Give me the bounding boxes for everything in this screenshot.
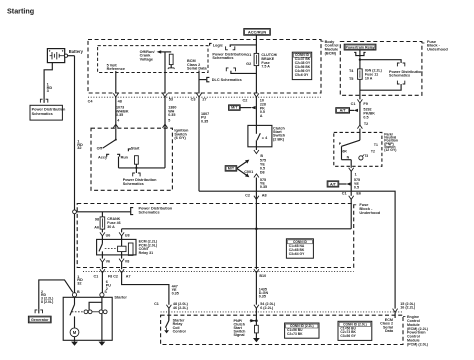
svg-text:T1: T1 <box>374 143 378 147</box>
svg-text:0.5: 0.5 <box>354 186 359 190</box>
svg-text:A/T: A/T <box>330 182 337 186</box>
svg-text:Powertrain Relay: Powertrain Relay <box>345 45 374 49</box>
ignition Run terminal <box>117 154 120 156</box>
wire relay to IGN fuse <box>359 57 361 69</box>
svg-text:0.5: 0.5 <box>363 115 368 119</box>
svg-text:V6: V6 <box>106 260 111 264</box>
svg-text:Accy: Accy <box>98 155 108 159</box>
svg-text:Starter: Starter <box>114 294 127 299</box>
relay terminal U6 <box>100 232 105 236</box>
svg-text:C2: C2 <box>243 99 248 103</box>
svg-text:0.35: 0.35 <box>116 113 123 117</box>
connector C001 arrows <box>254 150 259 154</box>
generator label box <box>28 316 51 323</box>
BCM CONN ID table <box>292 52 311 79</box>
wire battery to power distribution (1 RD 3) <box>44 63 52 100</box>
svg-text:Control: Control <box>173 330 186 334</box>
svg-text:C1: C1 <box>351 102 356 106</box>
resistor in BCM <box>169 54 173 64</box>
svg-text:M/T: M/T <box>228 166 235 170</box>
BCM connector dotted row <box>88 96 321 98</box>
svg-text:B: B <box>77 290 80 294</box>
svg-text:N: N <box>347 155 350 159</box>
clutch start switch <box>248 125 272 146</box>
body control module (BCM) dashed box <box>88 40 321 94</box>
wire 447 YE relay coil control <box>122 273 169 305</box>
starter grounds <box>71 342 78 346</box>
ECM CONN ID table 2.0L <box>338 321 372 340</box>
svg-text:10 A: 10 A <box>365 77 373 81</box>
svg-text:T3: T3 <box>364 154 368 158</box>
ignition Start terminal and resistor <box>128 149 131 151</box>
svg-text:A/T: A/T <box>340 108 347 112</box>
connector C2 A8 into fuse block <box>254 196 259 200</box>
M/T arrow label upper <box>229 105 241 110</box>
svg-text:Schematics: Schematics <box>139 211 160 215</box>
wire 228 PK to clutch start switch <box>255 97 257 125</box>
svg-text:M: M <box>73 330 77 335</box>
svg-text:C3: C3 <box>191 98 196 102</box>
svg-text:(2 BK): (2 BK) <box>273 137 285 141</box>
svg-text:T5: T5 <box>349 77 353 81</box>
svg-text:Logic: Logic <box>213 43 223 47</box>
svg-text:C2: C2 <box>245 193 250 197</box>
svg-text:Schematics: Schematics <box>389 74 410 78</box>
svg-text:G2: G2 <box>246 62 251 66</box>
wire 575 YE below C001 <box>255 178 257 200</box>
svg-text:0.35: 0.35 <box>259 295 266 299</box>
ignition switch to power distribution <box>135 168 137 173</box>
wire battery to starter B (1 RD 32) <box>68 55 75 57</box>
svg-text:C1: C1 <box>154 302 159 306</box>
svg-text:DLC Schematics: DLC Schematics <box>212 78 242 82</box>
wire BCM serial data <box>198 71 200 94</box>
wire 575 YE from PNP (A/T) <box>349 168 354 172</box>
powertrain relay contact symbol <box>359 50 361 57</box>
svg-text:Reference: Reference <box>107 67 125 71</box>
svg-text:F8 C2: F8 C2 <box>108 275 118 279</box>
wire 1435 D-GN clutch/PNP signal to ECM <box>254 269 259 273</box>
svg-text:Start: Start <box>131 147 140 151</box>
svg-text:U8: U8 <box>125 233 130 237</box>
svg-text:T2: T2 <box>371 150 375 154</box>
connector C1 F9 <box>357 99 362 103</box>
wire class 2 serial data to ECM <box>199 191 395 308</box>
svg-text:16 (2.2L): 16 (2.2L) <box>400 306 416 310</box>
svg-text:Underhood: Underhood <box>359 210 380 215</box>
svg-text:E6: E6 <box>356 191 361 195</box>
svg-text:0.35: 0.35 <box>172 292 179 296</box>
off-page bracket to power distribution <box>131 208 134 215</box>
svg-text:30 A: 30 A <box>107 225 115 229</box>
connector C1 F8-C2 A7 labels <box>100 269 105 273</box>
PNP/clutch start switch signal input <box>255 319 258 322</box>
ECM internal ground <box>253 338 260 342</box>
svg-text:8 (2.0L): 8 (2.0L) <box>41 300 53 304</box>
svg-text:B: B <box>260 154 263 158</box>
relay outputs V6 V8 <box>101 255 103 259</box>
connector arrows into ignition switch <box>113 124 118 128</box>
harness connector dotted row <box>83 270 354 272</box>
svg-text:Underhood: Underhood <box>427 47 448 52</box>
svg-text:Data: Data <box>385 329 394 333</box>
svg-text:G1: G1 <box>246 53 251 57</box>
ignition Accy terminal <box>107 154 110 156</box>
ignition switch internal wire to terminal 5 <box>119 167 166 169</box>
ignition switch dashed box <box>91 128 172 190</box>
ACC/RUN feed label box <box>244 29 270 36</box>
svg-text:6 (2.2L): 6 (2.2L) <box>260 306 274 310</box>
powertrain relay label box <box>344 44 376 50</box>
ECM harness dotted row <box>161 311 403 313</box>
svg-text:0.35: 0.35 <box>201 120 208 124</box>
svg-text:(BCM): (BCM) <box>325 50 337 55</box>
CRANK fuse 46 30A <box>101 212 103 217</box>
BCM inner dashed box <box>98 46 208 73</box>
svg-text:C1: C1 <box>93 275 98 279</box>
branch to power distribution (off-page) <box>360 60 401 63</box>
svg-text:C2=73 BK: C2=73 BK <box>287 332 303 336</box>
svg-text:Relay 31: Relay 31 <box>139 251 154 255</box>
engine control module dashed box <box>161 315 403 344</box>
svg-text:C3=56 GY: C3=56 GY <box>340 334 356 338</box>
power distribution schematics box <box>30 105 62 120</box>
starter S wire to windings and ground <box>89 297 102 310</box>
svg-text:48: 48 <box>118 99 122 103</box>
svg-text:(12 GY): (12 GY) <box>384 148 396 152</box>
ECM CONN ID table 2.2L <box>285 323 319 338</box>
starter solenoid windings <box>84 310 88 314</box>
svg-text:27: 27 <box>202 98 206 102</box>
starter solenoid plunger link <box>72 311 84 313</box>
svg-text:V8: V8 <box>125 260 130 264</box>
svg-text:= 4: = 4 <box>262 136 268 140</box>
wire to generator (2 RD) <box>39 280 73 310</box>
svg-text:46 (2.2L): 46 (2.2L) <box>173 306 189 310</box>
ignition switch blade Off <box>115 128 117 139</box>
svg-text:Schematics: Schematics <box>123 182 144 186</box>
svg-text:C5=6 GY: C5=6 GY <box>295 73 309 77</box>
svg-text:Run: Run <box>121 156 129 160</box>
svg-text:C001: C001 <box>244 170 253 174</box>
svg-text:Off: Off <box>97 147 103 151</box>
node on battery cable feeding CRANK fuse <box>73 210 77 214</box>
starter motor <box>74 327 76 329</box>
svg-text:Voltage: Voltage <box>140 57 153 61</box>
svg-text:ACC/RUN: ACC/RUN <box>248 30 267 35</box>
fuse block underhood dashed box (top right) <box>340 42 422 96</box>
A/T label with arrow lower <box>327 181 339 187</box>
svg-text:Schematics: Schematics <box>212 56 233 60</box>
svg-text:C1: C1 <box>342 191 347 195</box>
svg-text:(PCM) (2.0L): (PCM) (2.0L) <box>407 343 429 347</box>
svg-text:M/T: M/T <box>231 106 238 110</box>
off-page bracket generator <box>35 310 37 313</box>
DLC schematics tap <box>199 79 206 81</box>
svg-text:A6: A6 <box>94 226 99 230</box>
starter relay coil control driver <box>168 315 170 320</box>
svg-text:0.35: 0.35 <box>260 185 267 189</box>
svg-text:Serial Data: Serial Data <box>187 67 208 71</box>
off-page connector to power distribution <box>40 99 42 102</box>
starter solenoid contact <box>74 297 76 305</box>
svg-text:Signal: Signal <box>234 333 245 337</box>
svg-text:98: 98 <box>95 217 99 221</box>
svg-text:Generator: Generator <box>31 318 49 322</box>
starter B terminal <box>72 293 76 297</box>
PNP switch internals <box>342 140 360 146</box>
svg-text:A8: A8 <box>262 193 267 197</box>
svg-text:A7: A7 <box>126 275 131 279</box>
M/T arrow label lower <box>225 166 237 171</box>
relay terminal U8 fed by 575 bus <box>122 228 352 230</box>
svg-text:C3=64 GY: C3=64 GY <box>289 252 305 256</box>
wire 5 volt reference <box>115 71 117 94</box>
park/neutral position switch dashed box <box>334 132 382 166</box>
svg-text:Battery: Battery <box>69 49 84 54</box>
svg-text:F9: F9 <box>363 102 367 106</box>
fuse block center CONN ID table <box>286 239 313 258</box>
svg-text:A: A <box>260 114 263 118</box>
svg-text:Schematics: Schematics <box>32 112 53 116</box>
svg-text:53: 53 <box>169 98 173 102</box>
ECM/PCM CONT relay 31 <box>97 239 136 255</box>
svg-text:5: 5 <box>168 119 170 123</box>
svg-text:(6 GY): (6 GY) <box>174 135 186 140</box>
svg-text:T2: T2 <box>364 122 368 126</box>
starter box <box>63 297 112 340</box>
svg-text:7.5 A: 7.5 A <box>261 65 270 69</box>
svg-text:0.35: 0.35 <box>168 113 175 117</box>
battery B+ <box>47 49 64 63</box>
A/T label with arrow (5292) <box>336 108 350 113</box>
wire off/run/crank voltage output <box>164 52 166 94</box>
svg-text:D8: D8 <box>260 171 265 175</box>
fuse block underhood dashed box (center) <box>77 204 354 268</box>
connector T2 into PNP switch <box>357 125 362 129</box>
svg-text:Starting: Starting <box>7 6 34 15</box>
wire clutch/brake fuse output <box>255 66 257 94</box>
wire 6 PU to starter S <box>101 273 103 293</box>
svg-text:B10: B10 <box>259 274 266 278</box>
svg-text:1: 1 <box>355 173 357 177</box>
connector C1 E6 <box>349 196 354 200</box>
starter S terminal <box>100 293 104 297</box>
svg-text:U6: U6 <box>106 233 111 237</box>
BCM logic symbol <box>210 43 212 45</box>
svg-text:6R: 6R <box>342 150 347 154</box>
pull-up resistor in ECM <box>255 321 257 326</box>
